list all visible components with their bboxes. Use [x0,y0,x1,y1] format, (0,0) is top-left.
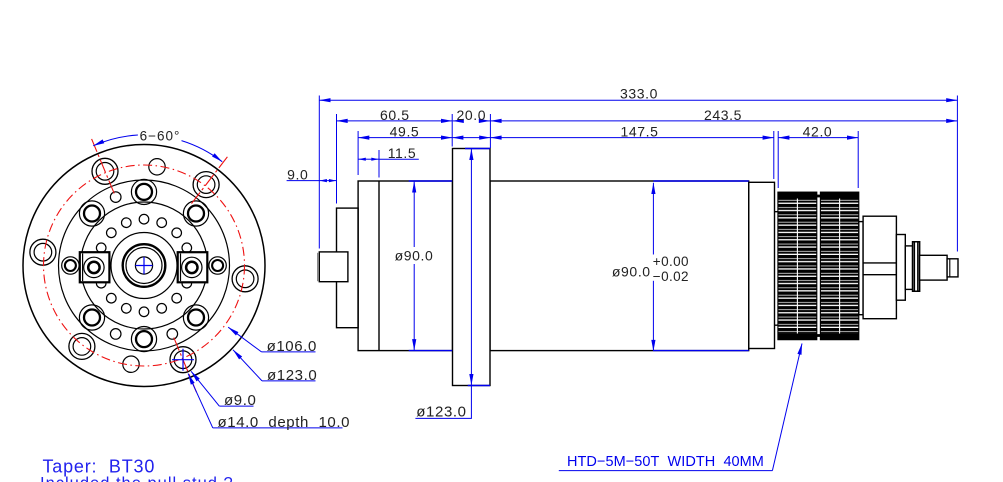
svg-text:Included the pull stud ?: Included the pull stud ? [40,475,234,482]
svg-text:20.0: 20.0 [456,107,486,123]
svg-text:ø123.0: ø123.0 [416,403,466,420]
svg-text:ø90.0: ø90.0 [612,263,651,279]
svg-text:−0.02: −0.02 [653,269,689,284]
svg-text:147.5: 147.5 [620,124,658,140]
svg-text:+0.00: +0.00 [653,254,689,269]
svg-text:42.0: 42.0 [803,124,833,140]
svg-text:243.5: 243.5 [704,107,742,123]
svg-text:9.0: 9.0 [287,167,308,183]
svg-text:60.5: 60.5 [380,107,410,123]
svg-text:ø9.0: ø9.0 [224,392,256,409]
svg-text:ø90.0: ø90.0 [395,247,434,263]
svg-text:49.5: 49.5 [390,124,420,140]
svg-text:6−60°: 6−60° [140,129,181,144]
svg-text:ø123.0: ø123.0 [267,367,317,384]
svg-text:333.0: 333.0 [620,86,658,102]
svg-text:ø14.0 depth 10.0: ø14.0 depth 10.0 [218,414,351,431]
svg-text:Taper: BT30: Taper: BT30 [43,457,156,477]
svg-text:ø106.0: ø106.0 [267,338,317,355]
svg-text:HTD−5M−50T WIDTH 40MM: HTD−5M−50T WIDTH 40MM [567,454,764,470]
svg-text:11.5: 11.5 [388,145,417,161]
